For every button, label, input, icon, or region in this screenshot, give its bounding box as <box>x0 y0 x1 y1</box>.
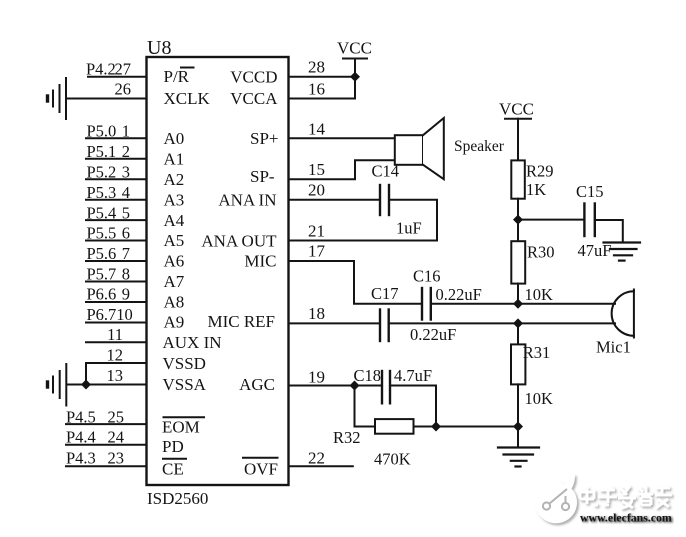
svg-text:19: 19 <box>308 368 325 387</box>
svg-text:P5.4: P5.4 <box>87 203 117 222</box>
wire pin18 MIC REF <box>289 322 381 324</box>
ground right (C15) <box>604 243 641 261</box>
svg-text:18: 18 <box>308 304 325 323</box>
wire pin27 P4.2 <box>88 76 147 78</box>
microphone Mic1 <box>633 290 635 338</box>
svg-text:16: 16 <box>308 80 325 99</box>
svg-text:C17: C17 <box>371 284 399 303</box>
svg-text:R29: R29 <box>526 162 554 181</box>
svg-text:R32: R32 <box>333 428 361 447</box>
svg-text:VCCA: VCCA <box>230 89 278 108</box>
svg-text:PD: PD <box>162 437 184 456</box>
svg-text:SP+: SP+ <box>250 129 279 148</box>
svg-text:P5.3: P5.3 <box>87 183 117 202</box>
svg-text:A0: A0 <box>164 129 185 148</box>
resistor R32 <box>375 419 414 434</box>
watermark chinese text white <box>580 486 672 508</box>
svg-text:CE: CE <box>162 460 184 479</box>
node R29/R30/C15 <box>513 215 523 225</box>
svg-text:P4.2: P4.2 <box>86 60 116 79</box>
svg-text:A3: A3 <box>164 190 185 209</box>
wire jog VSSD-VSSA <box>85 363 87 385</box>
wire AGC down to R32 <box>355 386 376 427</box>
ground bottom-center <box>498 448 539 467</box>
svg-text:23: 23 <box>108 449 125 468</box>
svg-text:VSSA: VSSA <box>163 375 207 394</box>
svg-text:P4.5: P4.5 <box>66 407 96 426</box>
svg-text:P5.7: P5.7 <box>87 265 117 284</box>
wire C15 to right ground <box>595 220 623 242</box>
watermark logo shadow <box>537 476 579 526</box>
node VCC/pin28 <box>350 72 360 82</box>
svg-text:20: 20 <box>308 181 325 200</box>
svg-text:P5.2: P5.2 <box>87 162 117 181</box>
resistor R29 <box>511 160 525 198</box>
svg-text:22: 22 <box>308 449 325 468</box>
watermark chinese text shadow <box>582 488 674 510</box>
svg-text:ANA IN: ANA IN <box>218 190 276 209</box>
svg-text:0.22uF: 0.22uF <box>410 325 456 344</box>
svg-text:14: 14 <box>308 119 326 138</box>
wire R32 to ground column <box>414 426 519 428</box>
wire C14 to pin21 <box>389 200 437 241</box>
svg-text:470K: 470K <box>374 450 411 469</box>
svg-text:C15: C15 <box>576 182 604 201</box>
svg-text:VCCD: VCCD <box>230 67 277 86</box>
wire pin15 SP- <box>289 160 395 179</box>
svg-text:OVF: OVF <box>244 460 278 479</box>
svg-text:6: 6 <box>122 224 130 243</box>
svg-text:C14: C14 <box>372 162 400 181</box>
svg-text:P5.5: P5.5 <box>87 224 117 243</box>
svg-text:ANA OUT: ANA OUT <box>201 232 277 251</box>
svg-text:VCC: VCC <box>337 39 372 58</box>
svg-text:21: 21 <box>308 222 325 241</box>
VCC symbol right <box>505 118 531 120</box>
svg-text:AUX IN: AUX IN <box>163 333 222 352</box>
IC inside pin names <box>162 67 279 479</box>
svg-text:4.7uF: 4.7uF <box>394 366 432 385</box>
svg-text:9: 9 <box>122 285 130 304</box>
wire pin23 CE <box>66 465 147 467</box>
wire pin7 P5.6 <box>86 260 147 262</box>
svg-text:C18: C18 <box>354 366 382 385</box>
wire pin12 VSSD <box>86 362 147 364</box>
svg-text:Speaker: Speaker <box>454 138 505 155</box>
ground top-left <box>48 78 67 119</box>
node C17/R31 line B <box>513 318 523 328</box>
svg-text:8: 8 <box>122 265 130 284</box>
wire pin20 ANA IN <box>289 199 381 201</box>
node VSSA ground <box>81 380 91 390</box>
wire pin2 P5.1 <box>86 158 147 160</box>
capacitor C16 <box>421 288 423 320</box>
wire pin19 AGC <box>289 385 382 387</box>
svg-text:SP-: SP- <box>250 167 275 186</box>
svg-text:5: 5 <box>122 203 130 222</box>
svg-text:MIC REF: MIC REF <box>207 312 275 331</box>
svg-text:10K: 10K <box>525 389 554 408</box>
wire pin10 P6.7 <box>86 322 147 324</box>
wire pin14 SP+ <box>289 137 395 139</box>
svg-text:A1: A1 <box>164 150 185 169</box>
wire junction to C15 <box>518 219 584 221</box>
svg-text:U8: U8 <box>147 37 171 59</box>
svg-text:15: 15 <box>308 160 325 179</box>
svg-text:VCC: VCC <box>499 100 534 119</box>
wire R31 bottom to ground <box>517 384 519 446</box>
wire pin11 AUX IN <box>86 341 147 343</box>
ground bottom-left <box>48 364 67 406</box>
wire pin28 VCCD <box>289 76 356 78</box>
svg-text:11: 11 <box>107 325 123 344</box>
svg-text:MIC: MIC <box>244 252 276 271</box>
svg-text:EOM: EOM <box>162 418 200 437</box>
svg-text:A2: A2 <box>164 170 185 189</box>
svg-text:A8: A8 <box>164 293 185 312</box>
svg-text:P6.710: P6.710 <box>87 305 133 324</box>
resistor R31 <box>511 344 525 384</box>
svg-text:P5.0: P5.0 <box>87 122 117 141</box>
svg-text:P5.1: P5.1 <box>87 142 117 161</box>
wire R30 bottom to line A <box>517 284 519 304</box>
svg-text:XCLK: XCLK <box>164 89 211 108</box>
resistor R30 <box>511 241 525 283</box>
wire pin16 VCCA <box>289 98 356 100</box>
svg-text:R31: R31 <box>523 343 551 362</box>
wire pin3 P5.2 <box>86 178 147 180</box>
wire C17 to mic (line B) <box>389 322 615 324</box>
svg-text:A9: A9 <box>164 313 185 332</box>
svg-text:25: 25 <box>108 407 125 426</box>
svg-text:3: 3 <box>122 162 130 181</box>
wire pin21 ANA OUT <box>289 240 438 242</box>
TEXT LAYER <box>66 37 326 508</box>
wire C18 right to R32 junction <box>390 386 436 427</box>
svg-text:A6: A6 <box>164 252 185 271</box>
svg-text:C16: C16 <box>413 267 441 286</box>
watermark logo white body <box>535 474 577 524</box>
svg-text:www.elecfans.com: www.elecfans.com <box>580 511 672 525</box>
svg-text:P4.4: P4.4 <box>66 428 96 447</box>
svg-text:7: 7 <box>122 244 130 263</box>
wire pin4 P5.3 <box>86 199 147 201</box>
svg-text:4: 4 <box>122 183 130 202</box>
node R30/mic line A <box>513 299 523 309</box>
wire pin24 PD <box>66 444 147 446</box>
svg-text:P4.3: P4.3 <box>66 449 96 468</box>
svg-text:0.22uF: 0.22uF <box>436 285 482 304</box>
capacitor C15 <box>583 204 585 237</box>
svg-text:R30: R30 <box>527 243 555 262</box>
wire pin26 XCLK <box>66 98 147 100</box>
wire pin17 MIC <box>289 261 423 304</box>
capacitor C14 <box>379 185 381 215</box>
component value labels <box>333 39 631 469</box>
svg-text:A5: A5 <box>164 231 185 250</box>
svg-text:13: 13 <box>107 366 124 385</box>
capacitor C18 <box>381 371 383 403</box>
node C18/R32 right <box>431 422 441 432</box>
wire line B to R31 <box>517 323 519 344</box>
svg-text:ISD2560: ISD2560 <box>147 489 208 508</box>
op-amp U8 IC box ISD2560 <box>147 57 289 485</box>
wire C16 to mic (line A) <box>431 303 615 305</box>
wire pin9 P6.6 <box>86 301 147 303</box>
svg-text:1: 1 <box>122 122 130 141</box>
svg-text:1K: 1K <box>526 180 546 199</box>
svg-text:A4: A4 <box>164 211 185 230</box>
svg-text:10K: 10K <box>525 285 554 304</box>
wire pin25 EOM <box>66 423 147 425</box>
node AGC/C18/R32 <box>350 381 360 391</box>
svg-text:47uF: 47uF <box>578 241 612 260</box>
svg-text:A7: A7 <box>164 272 185 291</box>
svg-text:28: 28 <box>308 58 325 77</box>
speaker <box>395 135 423 165</box>
wire pin22 OVF <box>289 465 353 467</box>
svg-text:26: 26 <box>115 80 132 99</box>
svg-text:2: 2 <box>122 142 130 161</box>
svg-text:12: 12 <box>107 345 124 364</box>
svg-text:1uF: 1uF <box>396 219 422 238</box>
wire pin6 P5.5 <box>86 240 147 242</box>
svg-text:27: 27 <box>115 60 132 79</box>
svg-text:P5.6: P5.6 <box>87 244 117 263</box>
wire R29 to junction <box>517 199 519 242</box>
wire pin1 P5.0 <box>86 137 147 139</box>
wire pin13 VSSA <box>67 384 147 386</box>
watermark logo circuit traces <box>543 489 569 510</box>
svg-text:AGC: AGC <box>239 375 275 394</box>
capacitor C17 <box>379 310 381 342</box>
svg-text:Mic1: Mic1 <box>596 338 631 357</box>
node R31/R32 ground <box>513 422 523 432</box>
svg-text:VSSD: VSSD <box>163 354 206 373</box>
VCC symbol top <box>354 59 356 99</box>
svg-text:24: 24 <box>108 428 125 447</box>
svg-text:17: 17 <box>308 242 326 261</box>
svg-text:P6.6: P6.6 <box>87 285 117 304</box>
wire pin5 P5.4 <box>86 219 147 221</box>
svg-text:P/R: P/R <box>164 67 190 86</box>
wire pin8 P5.7 <box>86 281 147 283</box>
